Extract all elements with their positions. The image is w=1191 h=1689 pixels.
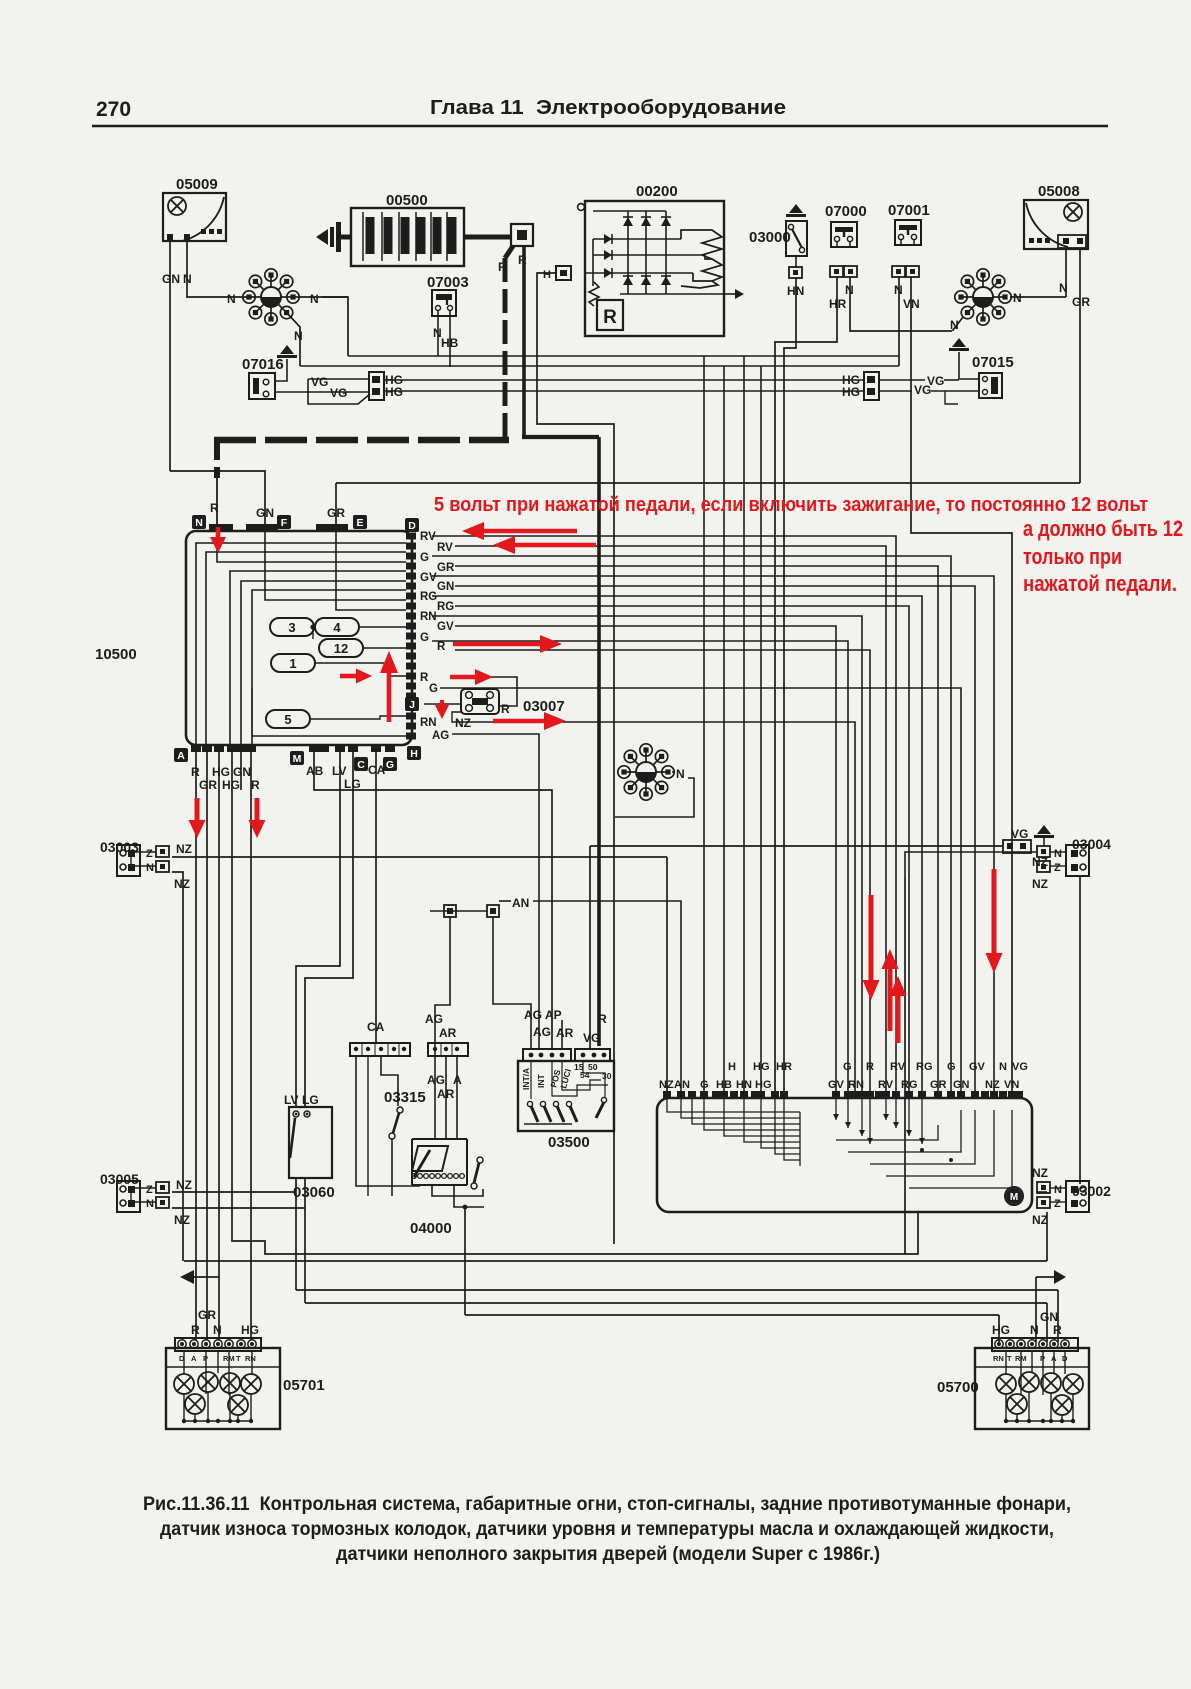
svg-text:270: 270: [96, 98, 131, 121]
svg-text:RV: RV: [437, 542, 453, 554]
red arrow right at R pin: [453, 642, 540, 647]
svg-text:HG: HG: [753, 1061, 770, 1073]
ground near 07015: [952, 338, 966, 347]
line L1 N net: [348, 355, 899, 357]
svg-text:R: R: [866, 1061, 874, 1073]
svg-text:N: N: [310, 292, 319, 306]
svg-text:4: 4: [333, 620, 341, 635]
wire GN to bottom bus: [232, 752, 918, 1254]
svg-text:RV: RV: [420, 531, 436, 543]
svg-text:N: N: [1030, 1323, 1039, 1337]
svg-text:RG: RG: [420, 591, 437, 603]
wire AB: [314, 752, 552, 1049]
svg-text:NZ: NZ: [455, 716, 471, 730]
svg-text:GR: GR: [437, 562, 455, 574]
wire HB branch down to motor block: [723, 366, 725, 1093]
svg-text:RV: RV: [878, 1079, 894, 1091]
svg-text:J: J: [409, 699, 415, 711]
svg-text:D: D: [408, 520, 416, 532]
connector M: [290, 751, 304, 765]
output arrow of 00200: [724, 293, 737, 295]
wire N from flower to line L1: [295, 296, 348, 298]
connector J: [405, 697, 419, 711]
wire 03004 to 03002: [1079, 876, 1081, 1184]
svg-text:R: R: [437, 641, 446, 653]
wire from pin to motor block: [455, 650, 870, 1093]
wire AN to motor block: [533, 901, 681, 1093]
wire GR to 05701: [206, 752, 208, 1340]
lamp wiring 05701: [183, 1351, 185, 1374]
svg-text:A: A: [177, 750, 185, 762]
svg-text:GV: GV: [969, 1061, 986, 1073]
wire from node to 04000: [435, 917, 450, 1043]
line L3 HG net: [384, 379, 864, 381]
red arrow right at NZ: [493, 719, 544, 724]
lamps of 05700: [996, 1374, 1016, 1394]
svg-text:G: G: [947, 1061, 956, 1073]
svg-text:NZ: NZ: [1032, 1166, 1048, 1180]
red arrow down left A: [195, 798, 200, 820]
wire from pin to motor block: [432, 556, 951, 1093]
arrow terminal left of 00500: [316, 229, 328, 245]
svg-text:H: H: [410, 748, 418, 760]
svg-text:RN: RN: [420, 611, 437, 623]
svg-text:VG: VG: [583, 1031, 600, 1045]
svg-text:GN: GN: [162, 272, 180, 286]
svg-text:R: R: [420, 672, 429, 684]
thick wire into 00500: [341, 235, 352, 240]
svg-text:только при: только при: [1023, 544, 1122, 569]
wire HR: [775, 277, 837, 1093]
oval 5: [266, 710, 310, 728]
wire HN branch: [743, 356, 745, 1093]
thick wire R across to x599: [522, 435, 599, 439]
terminal bumps of motor block: [663, 1091, 671, 1099]
svg-text:RV: RV: [890, 1061, 906, 1073]
svg-text:GR: GR: [198, 1308, 216, 1322]
bus line 1315: [465, 1314, 999, 1316]
motor symbol M: [1005, 1187, 1023, 1205]
oval 1: [271, 654, 315, 672]
wire N of 05008: [1065, 248, 1067, 297]
thick wire from 00500 to node: [463, 235, 512, 240]
svg-text:00500: 00500: [386, 192, 428, 209]
svg-text:R: R: [498, 260, 507, 274]
svg-text:датчик износа тормозных колодо: датчик износа тормозных колодок, датчики…: [160, 1519, 1054, 1540]
wire N of 07003: [437, 311, 439, 356]
svg-text:G: G: [429, 683, 438, 695]
wire HG to 05701: [250, 752, 252, 1340]
svg-text:GN: GN: [437, 581, 454, 593]
svg-text:а должно быть 12: а должно быть 12: [1023, 516, 1183, 541]
svg-text:05700: 05700: [937, 1379, 979, 1396]
svg-text:H: H: [543, 269, 551, 281]
svg-text:03500: 03500: [548, 1134, 590, 1151]
wire N of 07001 down to L2: [898, 277, 900, 366]
bus line arrow left: [180, 1270, 194, 1284]
svg-text:INT/A: INT/A: [521, 1068, 531, 1090]
wire N from 05009 to flower: [187, 241, 247, 297]
connector C: [354, 757, 368, 771]
wire stub: [240, 752, 242, 790]
terminal E: [353, 515, 367, 529]
svg-text:Z: Z: [1054, 1198, 1061, 1210]
wire NZ of 03004 down: [905, 852, 1037, 878]
wire R to 05701: [195, 752, 197, 1340]
wire GN from 05009 to connector F of 10500: [169, 241, 171, 471]
svg-text:N: N: [1013, 291, 1022, 305]
oval 12: [319, 639, 363, 657]
wire from pin to motor block: [432, 641, 848, 1093]
svg-text:Z: Z: [146, 1184, 153, 1196]
svg-text:HB: HB: [716, 1079, 732, 1091]
svg-text:G: G: [420, 632, 429, 644]
svg-text:N: N: [1054, 848, 1062, 860]
thick bus drop left: [214, 440, 220, 478]
wire NZ lower of 03005: [172, 1207, 305, 1209]
svg-text:AG: AG: [432, 730, 449, 742]
svg-text:HG: HG: [222, 778, 240, 792]
svg-text:N: N: [195, 517, 203, 529]
svg-text:Рис.11.36.11 Контрольная сист: Рис.11.36.11 Контрольная система, габари…: [143, 1494, 1071, 1515]
lamps of 05701: [174, 1374, 194, 1394]
svg-text:AG: AG: [533, 1025, 551, 1039]
svg-text:05701: 05701: [283, 1377, 325, 1394]
svg-text:R: R: [251, 778, 260, 792]
svg-text:03060: 03060: [293, 1184, 335, 1201]
svg-text:HN: HN: [736, 1079, 752, 1091]
wire from pin to motor block: [432, 536, 896, 1093]
svg-text:5: 5: [284, 712, 291, 727]
instrument cluster connector 10500: [186, 531, 412, 745]
svg-text:RN: RN: [245, 1354, 256, 1363]
svg-text:GN: GN: [1040, 1310, 1058, 1324]
bus line arrow right: [1036, 1276, 1058, 1278]
svg-text:N: N: [213, 1323, 222, 1337]
svg-text:NZ: NZ: [174, 1213, 190, 1227]
svg-text:NZ: NZ: [985, 1079, 1000, 1091]
wire VN long: [911, 277, 1012, 1093]
svg-text:R: R: [603, 307, 617, 328]
wire AR stub: [561, 1020, 563, 1049]
svg-text:04000: 04000: [410, 1220, 452, 1237]
svg-text:03007: 03007: [523, 698, 565, 715]
svg-text:VG: VG: [1012, 1061, 1028, 1073]
svg-text:N: N: [676, 767, 685, 781]
switch unit 04000: [428, 1043, 468, 1056]
svg-text:CA: CA: [367, 1020, 385, 1034]
terminal F: [277, 515, 291, 529]
svg-text:N: N: [950, 318, 959, 332]
lamp wiring 05700: [1005, 1351, 1007, 1374]
svg-text:RG: RG: [901, 1079, 918, 1091]
wire LG: [305, 752, 353, 1107]
svg-text:NZ: NZ: [1032, 1213, 1048, 1227]
svg-text:07015: 07015: [972, 354, 1014, 371]
svg-text:10500: 10500: [95, 646, 137, 663]
wire R solid from node down: [522, 246, 526, 436]
svg-text:RN: RN: [993, 1354, 1004, 1363]
svg-text:N: N: [294, 329, 303, 343]
connector A: [174, 748, 188, 762]
switch lever right of 04000: [477, 1157, 483, 1163]
red arrow up tall: [387, 673, 392, 722]
wire N of 07000 to flower line: [850, 277, 952, 331]
svg-text:N: N: [999, 1061, 1007, 1073]
internal wiring of 10500: [196, 543, 406, 745]
svg-text:RN: RN: [420, 717, 437, 729]
motor unit connector block: [657, 1098, 1032, 1212]
svg-text:VG: VG: [330, 386, 347, 400]
bus line 1303: [305, 1302, 1047, 1304]
svg-text:NZ: NZ: [659, 1079, 674, 1091]
svg-text:NZ: NZ: [176, 842, 192, 856]
svg-text:Z: Z: [1054, 862, 1061, 874]
wire N to 05701 and arrow: [218, 752, 220, 1340]
svg-text:12: 12: [334, 641, 348, 656]
wire from node to 03500: [493, 917, 531, 1049]
wire CA 2: [367, 1056, 369, 1196]
svg-text:R: R: [518, 253, 527, 267]
wire HB: [449, 311, 451, 367]
wire NZ upper of 03005: [172, 1191, 296, 1193]
wire from pin to motor block: [455, 566, 938, 1093]
red arrow down left B: [255, 798, 260, 820]
svg-text:NZ: NZ: [1032, 877, 1048, 891]
svg-text:R: R: [501, 702, 510, 716]
wire R dashed (thick): [505, 246, 513, 258]
svg-text:AR: AR: [556, 1026, 574, 1040]
svg-text:AP: AP: [545, 1008, 562, 1022]
svg-text:AG: AG: [425, 1012, 443, 1026]
ovals fuse 3 and 4: [270, 618, 314, 636]
svg-text:03005: 03005: [100, 1171, 139, 1187]
svg-text:T: T: [1007, 1354, 1012, 1363]
wires VG to 07015: [879, 379, 925, 381]
svg-text:Z: Z: [146, 848, 153, 860]
wire from pin to motor block: [455, 586, 975, 1093]
svg-text:N: N: [146, 1198, 154, 1210]
sensor 03007: [461, 689, 499, 714]
svg-text:3: 3: [288, 620, 295, 635]
svg-text:G: G: [386, 759, 394, 771]
svg-text:датчики неполного закрытия две: датчики неполного закрытия дверей (модел…: [336, 1544, 880, 1565]
svg-text:A: A: [191, 1354, 197, 1363]
terminal N of 10500: [192, 515, 206, 529]
svg-text:R: R: [191, 1323, 200, 1337]
wire R thick down to 03500: [597, 437, 601, 1046]
svg-text:AG: AG: [427, 1073, 445, 1087]
wire 03002 left: [1037, 1191, 1047, 1193]
svg-text:R: R: [598, 1012, 607, 1026]
bus line 1261: [184, 1260, 1047, 1262]
field winding zigzag: [589, 282, 599, 306]
svg-text:HG: HG: [241, 1323, 259, 1337]
svg-text:N: N: [1059, 281, 1068, 295]
svg-text:LV: LV: [284, 1093, 298, 1107]
wire N of 03003 down to bus: [172, 872, 183, 1261]
wire N from flower bottom to line L2: [287, 313, 300, 366]
svg-text:AG: AG: [524, 1008, 542, 1022]
svg-text:F: F: [281, 517, 288, 529]
svg-text:GR: GR: [199, 778, 217, 792]
wire VG left pair: [274, 391, 370, 393]
red arrow right mid: [450, 675, 475, 680]
svg-text:00200: 00200: [636, 183, 678, 200]
svg-text:RN: RN: [848, 1079, 864, 1091]
thick dashed supply bus: [214, 437, 509, 444]
svg-text:07003: 07003: [427, 274, 469, 291]
stator windings zigzag: [681, 230, 722, 259]
svg-text:RG: RG: [916, 1061, 933, 1073]
wire G pin to motor block: [440, 688, 961, 1093]
red arrow left 1: [484, 529, 577, 534]
wire from pin to motor block: [455, 626, 836, 1093]
red arrow down middle: [869, 895, 874, 980]
svg-text:AN: AN: [512, 896, 529, 910]
svg-text:HR: HR: [776, 1061, 792, 1073]
svg-text:07016: 07016: [242, 356, 284, 373]
svg-text:T: T: [236, 1354, 241, 1363]
svg-text:GR: GR: [327, 506, 345, 520]
svg-text:G: G: [843, 1061, 852, 1073]
wire from pin to motor block: [455, 606, 909, 1093]
wire from pin to motor block: [432, 576, 994, 1093]
red arrow up middle 2: [896, 996, 901, 1043]
svg-text:LG: LG: [302, 1093, 319, 1107]
wire GR long from 05008: [1079, 248, 1081, 483]
svg-text:05009: 05009: [176, 176, 218, 193]
svg-text:07000: 07000: [825, 203, 867, 220]
connector HG right: [864, 372, 879, 400]
connector HG left: [369, 372, 384, 400]
red arrow right small: [340, 674, 356, 679]
svg-text:H: H: [728, 1061, 736, 1073]
svg-text:GV: GV: [828, 1079, 845, 1091]
timer flower symbol top-right: [983, 296, 1005, 298]
svg-text:G: G: [420, 552, 429, 564]
pin strip of 10500: [406, 533, 416, 540]
svg-text:AN: AN: [674, 1079, 690, 1091]
wire NZ line: [172, 856, 667, 858]
red arrow left 2: [515, 543, 596, 548]
wire G branch down to motor block: [703, 356, 705, 1093]
svg-text:HG: HG: [212, 765, 230, 779]
wire CA: [375, 752, 377, 1043]
svg-text:03000: 03000: [749, 229, 791, 246]
red arrow down right: [992, 869, 997, 953]
svg-text:нажатой педали.: нажатой педали.: [1023, 571, 1177, 596]
svg-text:N: N: [146, 862, 154, 874]
svg-text:G: G: [700, 1079, 709, 1091]
svg-text:03315: 03315: [384, 1089, 426, 1106]
svg-text:HG: HG: [385, 385, 403, 399]
timer flower symbol top-left: [271, 296, 293, 298]
wire to 03007: [455, 677, 517, 706]
svg-text:1: 1: [289, 656, 296, 671]
wire HN down to motor block: [784, 278, 796, 1093]
svg-text:RG: RG: [437, 601, 454, 613]
svg-text:INT: INT: [536, 1074, 546, 1089]
bottom terminal bumps of 10500: [191, 745, 201, 752]
wire from pin to motor block: [432, 596, 922, 1093]
svg-text:R: R: [1053, 1323, 1062, 1337]
svg-text:VG: VG: [311, 375, 328, 389]
wire AG to 03500: [452, 734, 539, 1049]
inside 03500: [521, 1062, 612, 1090]
svg-text:GV: GV: [437, 621, 454, 633]
red arrow down at R: [216, 527, 221, 537]
svg-text:N: N: [1054, 1184, 1062, 1196]
svg-text:VG: VG: [1011, 827, 1028, 841]
svg-text:GV: GV: [420, 572, 437, 584]
wiring below 04000: [432, 1185, 483, 1196]
connector G: [383, 757, 397, 771]
svg-text:AR: AR: [439, 1026, 457, 1040]
svg-text:5 вольт при нажатой педали, ес: 5 вольт при нажатой педали, если включит…: [434, 494, 1148, 516]
svg-text:NZ: NZ: [174, 877, 190, 891]
svg-text:HG: HG: [992, 1323, 1010, 1337]
red arrow up middle 1: [888, 969, 893, 1031]
svg-text:GR: GR: [1072, 295, 1090, 309]
wire VG line to 03500: [590, 845, 1003, 847]
svg-text:M: M: [293, 753, 302, 765]
svg-text:GN: GN: [953, 1079, 970, 1091]
ground near 07016: [280, 345, 294, 354]
regulator R box: [597, 300, 623, 330]
wires below 03060: [295, 1178, 297, 1290]
red arrow down small: [440, 700, 444, 705]
svg-text:VG: VG: [914, 383, 931, 397]
svg-text:GR: GR: [930, 1079, 947, 1091]
wire from pin to motor block: [432, 616, 862, 1093]
wire from middle flower: [672, 771, 674, 773]
line L4 HG net: [384, 390, 864, 392]
nodes AN: [444, 905, 456, 917]
svg-text:E: E: [356, 517, 363, 529]
wire NZ to motor block: [452, 712, 477, 722]
wire HG branch: [760, 366, 762, 1093]
svg-text:05008: 05008: [1038, 183, 1080, 200]
svg-text:C: C: [357, 759, 365, 771]
line L2 N net: [300, 365, 899, 367]
svg-text:GN: GN: [256, 506, 274, 520]
svg-text:N: N: [227, 292, 236, 306]
wire H long: [537, 273, 614, 1244]
svg-text:HG: HG: [755, 1079, 772, 1091]
svg-text:VN: VN: [1004, 1079, 1019, 1091]
svg-text:HG: HG: [842, 385, 860, 399]
timer flower symbol middle: [646, 771, 668, 773]
svg-text:M: M: [1010, 1192, 1018, 1203]
wire N from flower right down-left: [953, 317, 963, 331]
svg-text:54: 54: [580, 1070, 590, 1080]
connector H: [407, 746, 421, 760]
svg-text:07001: 07001: [888, 202, 930, 219]
svg-text:NZ: NZ: [176, 1178, 192, 1192]
internal wiring motor block: [667, 1098, 800, 1112]
svg-text:R: R: [210, 501, 219, 515]
junction node square: [511, 224, 533, 246]
terminal D: [405, 518, 419, 532]
wires below CA strip: [356, 1056, 420, 1186]
svg-text:GN: GN: [233, 765, 251, 779]
wire LV: [296, 752, 340, 1107]
wire from pin to motor block: [455, 546, 886, 1093]
svg-text:Глава 11 Электрооборудование: Глава 11 Электрооборудование: [430, 97, 786, 119]
bus line 1290: [296, 1289, 1058, 1291]
